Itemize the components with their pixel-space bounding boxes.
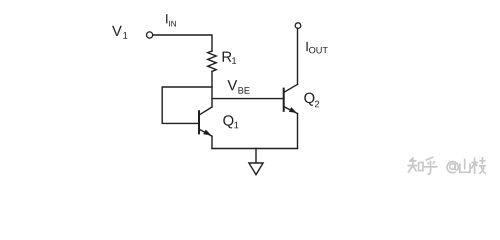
label R1 main R (223, 52, 232, 62)
wire VBE node to Q2 base (212, 98, 283, 100)
resistor R1 (208, 51, 217, 71)
山 (460, 159, 470, 173)
transistor Q1 (199, 107, 212, 149)
wire Q2 collector to IOUT terminal (297, 28, 299, 84)
wire IIN horizontal to R1 top (153, 35, 212, 51)
transistor Q2 (284, 84, 298, 113)
watermark 知乎 @山枝 (drawn, light gray) (408, 157, 486, 174)
label Q1 main Q (223, 115, 233, 128)
label VBE sub BE (238, 87, 249, 93)
terminal V1 input (147, 32, 153, 38)
label V1 main V (112, 26, 122, 36)
wire ground rail (212, 148, 298, 150)
乎 (424, 157, 438, 174)
terminal IOUT (295, 23, 301, 29)
知 (408, 158, 418, 173)
label Q1 sub 1 (234, 122, 238, 129)
label VBE main V (227, 80, 237, 90)
label IOUT main I (306, 42, 307, 51)
label V1 sub 1 (123, 32, 127, 39)
@ (447, 162, 458, 173)
枝 (471, 157, 486, 174)
label R1 sub 1 (232, 57, 236, 64)
label IIN main I (166, 14, 167, 23)
label IOUT sub OUT (309, 47, 328, 54)
label IIN sub IN (169, 21, 176, 27)
ground (255, 149, 257, 164)
wire base feedback loop (162, 87, 212, 123)
label Q2 sub 2 (315, 101, 319, 108)
wire R1 bottom to Q1 collector node (211, 71, 213, 107)
wire Q2 emitter down (297, 114, 299, 149)
label Q2 main Q (304, 93, 314, 106)
